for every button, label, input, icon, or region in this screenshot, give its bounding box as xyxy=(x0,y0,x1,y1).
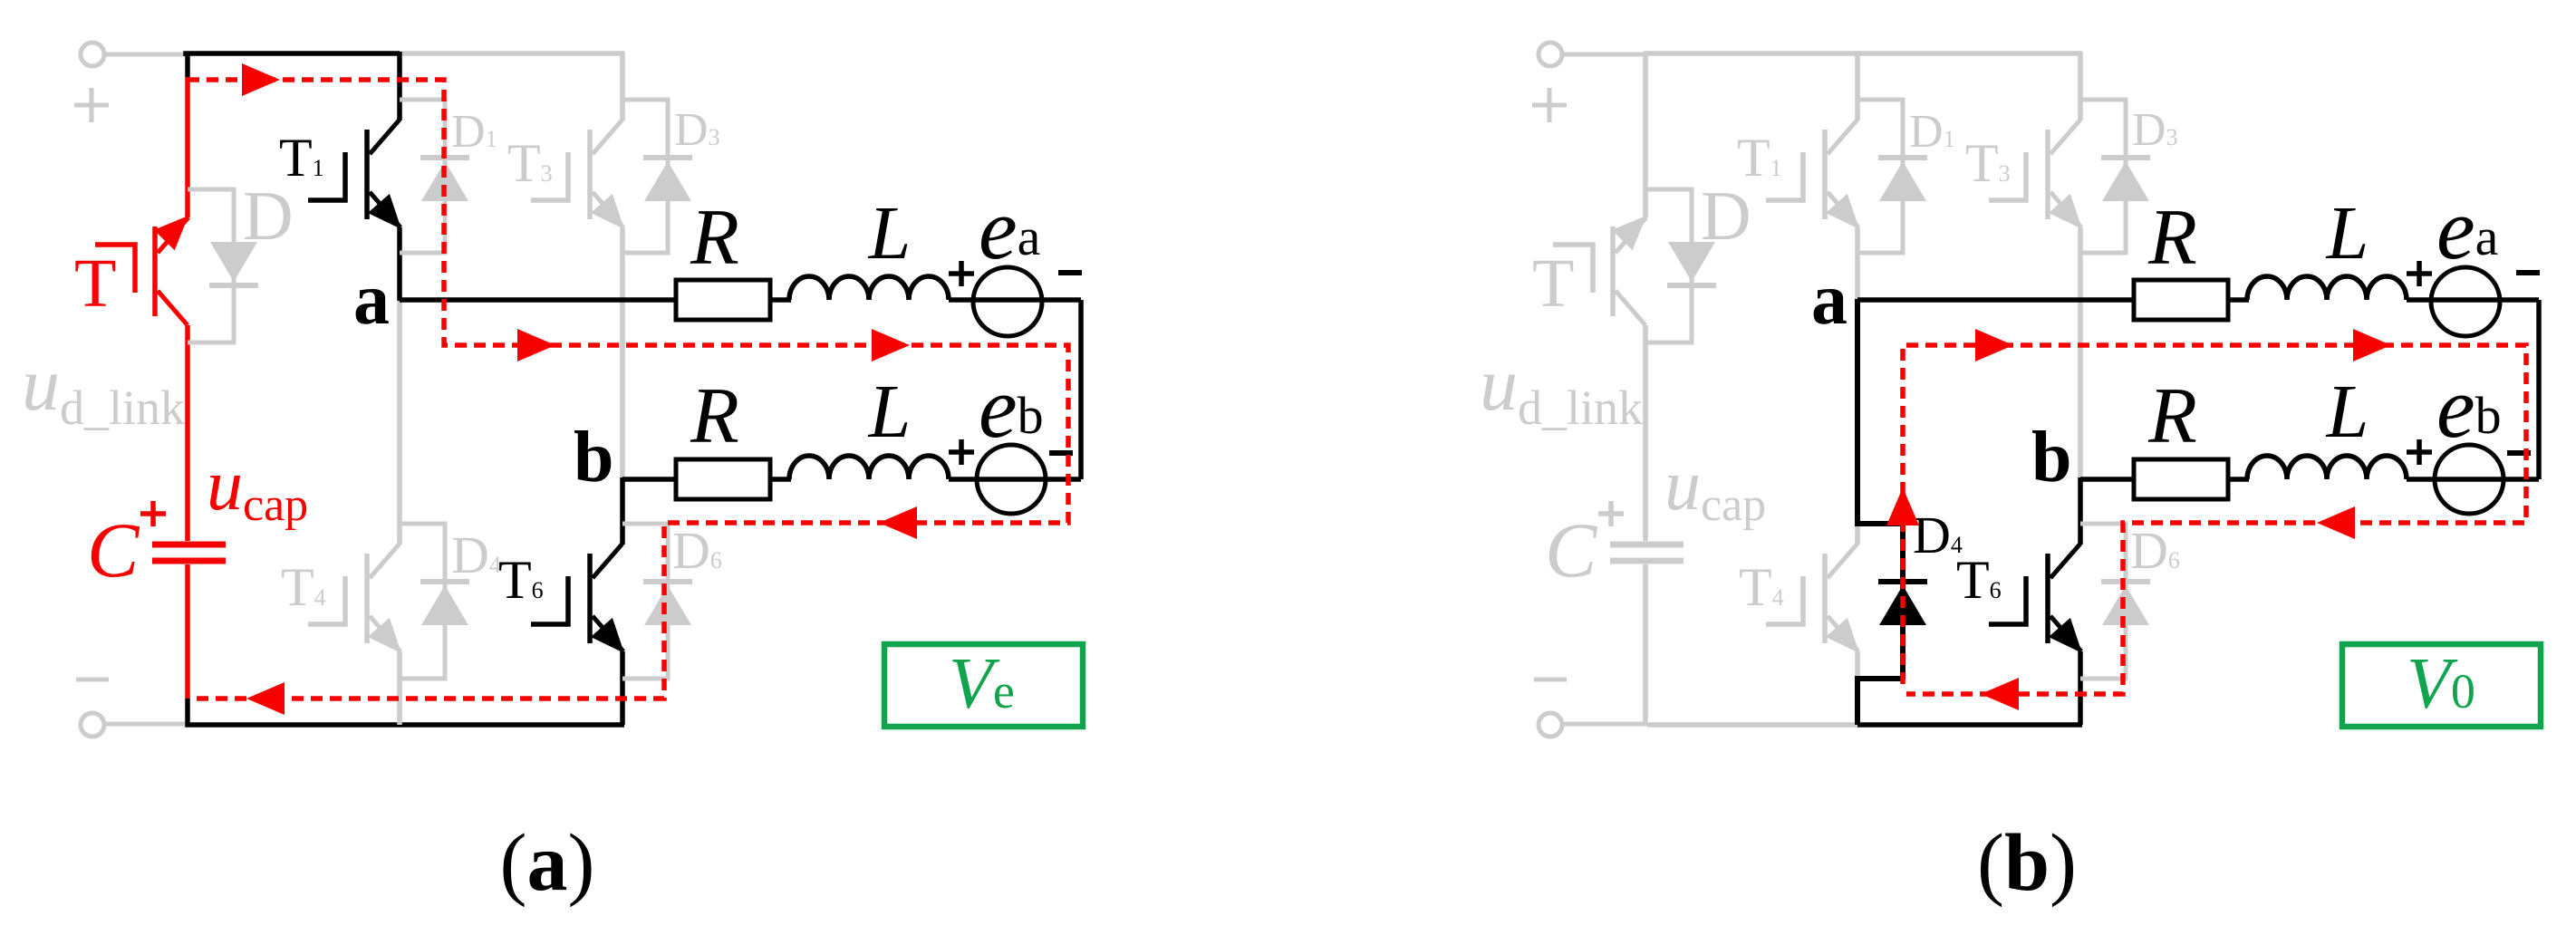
svg-text:(a): (a) xyxy=(500,818,595,908)
transistor T1 (a) xyxy=(308,52,401,301)
capacitor C (a) xyxy=(152,545,226,561)
inductor L row-a (a) xyxy=(789,276,949,300)
transistor T6 (b) xyxy=(1989,477,2082,725)
diode D6 (b) xyxy=(2101,582,2150,625)
wire node b to R (a) xyxy=(622,477,678,482)
wire R-L row-a (b) xyxy=(2228,297,2249,303)
diode D4 (a) xyxy=(420,582,469,625)
diode D4 branch wire (a) xyxy=(400,524,445,679)
wire terminal-top stub (b) xyxy=(1562,53,1645,57)
wire right return (b) xyxy=(2536,300,2542,479)
transistor T4 (b) xyxy=(1766,301,1859,725)
wire node a to R (a) xyxy=(400,297,678,303)
wire R-L row-b (a) xyxy=(770,477,791,482)
wire terminal-top stub (a) xyxy=(104,53,188,57)
terminal - circle (b) xyxy=(1539,713,1562,737)
transistor T1 (b) xyxy=(1766,52,1859,301)
+ sign e_b (a) xyxy=(949,439,974,465)
- sign e_b (a) xyxy=(1049,450,1073,456)
- terminal sign (a) xyxy=(76,678,109,682)
diode D1 branch wire (a) xyxy=(400,100,445,253)
output voltage green box (a) xyxy=(884,644,1083,727)
current arrow bottom (a) xyxy=(246,682,285,715)
diode D1 (a) xyxy=(420,158,469,201)
svg-text:R: R xyxy=(690,372,739,460)
svg-text:T: T xyxy=(1532,246,1574,322)
transistor T3 (a) xyxy=(531,52,624,480)
inductor L row-b (a) xyxy=(789,456,949,479)
wire node b to R (b) xyxy=(2080,477,2136,482)
resistor R row-a (a) xyxy=(676,280,770,320)
current arrow top (a) xyxy=(242,63,280,96)
current arrow row-a 1 (a) xyxy=(517,329,555,361)
wire left rail upper (b) xyxy=(1643,53,1648,217)
wire bottom bus (a) xyxy=(188,699,624,725)
svg-text:C: C xyxy=(87,506,140,593)
wire bottom bus black part (b) xyxy=(1857,722,2082,728)
wire terminal-bottom stub (b) xyxy=(1562,722,1647,727)
+ terminal sign (a) xyxy=(74,88,109,122)
capacitor C (b) xyxy=(1610,545,1684,561)
current path dashed loop (a) xyxy=(188,80,1068,699)
transistor T3 (b) xyxy=(1989,52,2082,480)
diode D (a) xyxy=(209,242,258,285)
wire L to e_b (a) xyxy=(949,477,1081,482)
diode D1 branch wire (b) xyxy=(1857,100,1903,253)
svg-text:b: b xyxy=(574,418,614,497)
svg-text:R: R xyxy=(2147,194,2197,282)
diode D1 (b) xyxy=(1878,158,1927,201)
current arrow row-b (a) xyxy=(879,506,917,539)
wire bottom bus gray part (b) xyxy=(1647,722,1857,728)
wire node a to R (b) xyxy=(1857,297,2136,303)
wire L to e_a to corner (b) xyxy=(2407,297,2539,303)
wire left rail upper (a) xyxy=(185,53,190,77)
diode D branch wire (a) xyxy=(188,189,234,342)
diode D branch wire (b) xyxy=(1645,189,1692,342)
svg-text:C: C xyxy=(1545,506,1598,593)
label C + polarity (b) xyxy=(1598,501,1624,526)
wire top bus black part (a) xyxy=(186,53,400,56)
current arrow row-a 2 (b) xyxy=(2353,329,2391,361)
wire terminal-bottom stub (a) xyxy=(104,722,189,727)
terminal - circle (a) xyxy=(81,713,104,737)
wire left rail lower (b) xyxy=(1643,564,1648,725)
wire R-L row-b (b) xyxy=(2228,477,2249,482)
- sign e_b (b) xyxy=(2507,450,2531,456)
wire left rail lower (a) xyxy=(185,564,190,699)
transistor T4 (a) xyxy=(308,301,401,725)
diode D3 branch wire (a) xyxy=(622,100,668,253)
+ sign e_a (a) xyxy=(949,261,974,286)
diode D3 (b) xyxy=(2101,158,2150,201)
wire R-L row-a (a) xyxy=(770,297,791,303)
svg-text:L: L xyxy=(2326,370,2369,454)
diode D3 branch wire (b) xyxy=(2080,100,2126,253)
inductor L row-b (b) xyxy=(2247,456,2407,479)
svg-text:L: L xyxy=(868,370,912,454)
svg-text:D: D xyxy=(1701,177,1751,255)
svg-text:L: L xyxy=(2326,191,2369,275)
resistor R row-b (b) xyxy=(2134,459,2228,499)
source e_a circle (a) xyxy=(973,267,1042,336)
current arrow row-a 2 (a) xyxy=(872,329,910,361)
transistor T (a) xyxy=(95,216,188,541)
current arrow row-b (b) xyxy=(2317,506,2355,539)
- sign e_a (a) xyxy=(1058,270,1082,275)
terminal + circle (b) xyxy=(1539,43,1562,66)
svg-text:D: D xyxy=(243,177,294,255)
terminal + circle (a) xyxy=(81,43,104,66)
svg-text:R: R xyxy=(690,194,739,282)
wire right return (a) xyxy=(1078,300,1084,479)
resistor R row-b (a) xyxy=(676,459,770,499)
current arrow D4 up (b) xyxy=(1886,487,1919,525)
+ sign e_a (b) xyxy=(2407,261,2432,286)
- terminal sign (b) xyxy=(1534,678,1567,682)
current arrow bottom (b) xyxy=(1981,678,2019,710)
diode D3 (a) xyxy=(643,158,692,201)
resistor R row-a (b) xyxy=(2134,280,2228,320)
label C + polarity (a) xyxy=(140,501,166,526)
diode D6 (a) xyxy=(643,582,692,625)
wire L to e_b (b) xyxy=(2407,477,2539,482)
diode D6 branch wire (b) xyxy=(2080,524,2126,679)
svg-text:b: b xyxy=(2031,418,2072,497)
svg-text:(b): (b) xyxy=(1977,818,2077,908)
diode D6 branch wire (a) xyxy=(622,524,668,679)
transistor T (b) xyxy=(1553,216,1646,541)
svg-text:L: L xyxy=(868,191,912,275)
wire top bus gray part (a) xyxy=(398,51,624,56)
wire black route a-D4-bottom (b) xyxy=(1857,299,1903,725)
current arrow row-a 1 (b) xyxy=(1975,329,2013,361)
source e_b circle (b) xyxy=(2435,445,2504,514)
svg-text:R: R xyxy=(2147,372,2197,460)
transistor T6 (a) xyxy=(531,477,624,725)
wire L to e_a to corner (a) xyxy=(949,297,1081,303)
+ terminal sign (b) xyxy=(1532,88,1567,122)
svg-text:a: a xyxy=(353,260,390,340)
diode D4 (b) xyxy=(1878,582,1927,625)
source e_b circle (a) xyxy=(977,445,1046,514)
current path dashed loop (b) xyxy=(1903,345,2526,694)
wire top bus (b) xyxy=(1644,51,2082,56)
+ sign e_b (b) xyxy=(2407,439,2432,465)
inductor L row-a (b) xyxy=(2247,276,2407,300)
svg-text:a: a xyxy=(1811,260,1848,340)
source e_a circle (b) xyxy=(2431,267,2500,336)
diode D4 branch wire (b) xyxy=(1857,524,1903,679)
- sign e_a (b) xyxy=(2516,270,2540,275)
output voltage green box (b) xyxy=(2342,644,2541,727)
svg-text:T: T xyxy=(74,246,116,322)
diode D (b) xyxy=(1667,242,1716,285)
